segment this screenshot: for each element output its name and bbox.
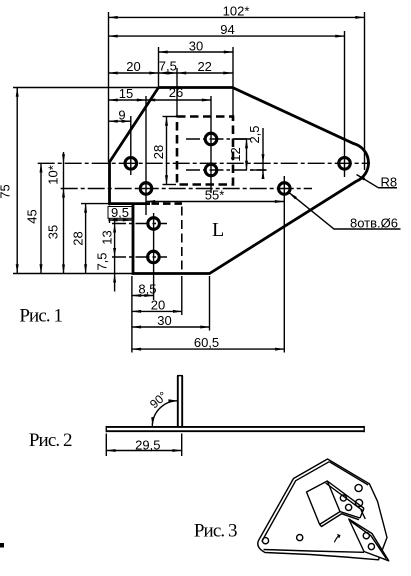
dim 102*: [109, 16, 365, 18]
hole 1: [125, 158, 137, 170]
vertical centerline flange holes: [210, 96, 212, 193]
lower blade outline: [349, 519, 389, 561]
svg-text:90°: 90°: [147, 389, 170, 412]
svg-text:60,5: 60,5: [194, 335, 219, 350]
dim 9,5: [108, 219, 132, 221]
flange 28 ext top: [163, 116, 177, 118]
dim 55*: [146, 201, 284, 203]
flange square face: [307, 481, 341, 524]
dim 7,5 top: [159, 72, 178, 74]
35 bottom arrow: [62, 265, 65, 274]
dim 2,5 line: [262, 128, 264, 178]
bar end caps: [105, 426, 107, 432]
flange 28 ext bottom: [163, 184, 177, 186]
extension line top-left corner: [158, 47, 160, 87]
bar top line: [106, 426, 364, 428]
extension line hole1 vertical: [130, 116, 132, 175]
10* arrows (outside): [62, 154, 65, 163]
centerline flange row B: [186, 169, 267, 171]
extension 9,5 left: [109, 206, 111, 224]
extension line hole2 vertical: [145, 96, 147, 215]
svg-text:28: 28: [151, 145, 166, 159]
thin construction / centerlines: [13, 12, 370, 353]
flange bent edge doubled: [327, 481, 364, 508]
hidden step edge continuation (dashed): [152, 202, 186, 205]
strip holes: [340, 495, 346, 501]
flange top cap: [177, 375, 183, 377]
svg-text:2,5: 2,5: [247, 125, 262, 143]
dim 10* / 35 shared line: [63, 152, 65, 274]
main plate outer outline: [258, 459, 387, 560]
dim 28 left: [85, 204, 87, 274]
svg-text:30: 30: [157, 313, 171, 328]
plate edge in notch: [361, 510, 365, 519]
svg-text:94: 94: [220, 22, 234, 37]
lower flange bend line (dashed): [181, 207, 183, 274]
bend line under square doubled: [320, 514, 342, 527]
leader R8: [289, 175, 401, 230]
svg-text:13: 13: [100, 230, 115, 244]
svg-text:8,5: 8,5: [138, 282, 156, 297]
vertical centerline holes 3,4: [153, 213, 155, 300]
plate outline left part: step edge, left edge, upper-left diagonal: [110, 88, 159, 204]
extension below corner x=209.5: [209, 276, 211, 331]
upper flange hidden rectangle (dashed): [177, 117, 233, 185]
blade inner line: [351, 521, 387, 558]
dim 15: [109, 99, 147, 101]
90 degree arc: [152, 401, 177, 427]
centerline hole 3: [112, 223, 167, 225]
9,5 frame box: [108, 207, 132, 219]
dim 26: [146, 99, 211, 101]
dim 20 top: [109, 72, 159, 74]
dim 60,5: [132, 348, 284, 350]
dim 29,5: [106, 434, 181, 457]
dim 9: [109, 120, 131, 122]
svg-text:45: 45: [25, 209, 40, 223]
blade holes: [363, 533, 369, 539]
arc arrowheads: [151, 399, 177, 426]
dim 75: [16, 88, 18, 274]
extension line y=87.5 to left: [13, 87, 158, 89]
svg-text:55*: 55*: [205, 188, 225, 203]
dimension lines with arrows: [17, 17, 364, 349]
svg-text:Рис. 1: Рис. 1: [19, 306, 62, 327]
dim 12: [246, 139, 248, 170]
underlines for leader labels: [378, 187, 397, 189]
rotated part mark on 3D view: [334, 535, 339, 543]
svg-text:9: 9: [118, 108, 125, 123]
svg-text:75: 75: [0, 184, 13, 198]
svg-text:15: 15: [119, 86, 133, 101]
bar bottom line: [106, 430, 364, 432]
dim 8,5: [132, 295, 154, 297]
extension line top-right corner: [232, 47, 234, 116]
extension line y=273.5 to left: [13, 273, 133, 275]
dimension value labels fig 1: [0, 3, 398, 350]
extension line right tip / 102: [364, 12, 366, 170]
dim 45: [40, 163, 42, 273]
svg-text:Рис. 2: Рис. 2: [29, 430, 72, 451]
7,5 bottom arrow (outside, from below): [113, 274, 116, 283]
extension line hole6 / 94: [344, 31, 346, 177]
vertical centerline hole 5 / 60,5 ext: [283, 176, 285, 353]
inner thickness line bottom: [264, 550, 365, 553]
svg-text:20: 20: [126, 59, 140, 74]
dim 30 bottom: [132, 326, 210, 328]
svg-text:30: 30: [189, 39, 203, 54]
hole 4: [148, 251, 160, 263]
explicit arrowheads for stacked vertical dims: [62, 154, 265, 282]
rows ext to 12-dim: [234, 138, 251, 140]
extension below bottom x=131.9: [131, 276, 133, 353]
strip tip: [360, 508, 364, 518]
svg-text:28: 28: [71, 231, 86, 245]
flange hole row A: [205, 133, 217, 145]
flange vertical lines: [177, 376, 179, 427]
svg-text:22: 22: [197, 59, 211, 74]
dim 30 top: [159, 51, 234, 53]
main horizontal centerline: [38, 162, 370, 164]
extension below bend line x=181.8: [181, 276, 183, 315]
centerline hole 4: [112, 256, 167, 258]
extension line flange left: [176, 68, 178, 116]
main plate holes: [262, 538, 268, 544]
plate outline right part: top edge, upper diagonal, R8 arc, lower diagonal, bottom edge, lower-flange left edge: [133, 88, 368, 274]
inner thickness line top-left: [262, 462, 329, 542]
svg-text:9,5: 9,5: [111, 205, 129, 220]
flange strip bottom edge doubled: [340, 512, 360, 518]
dim 20 bottom: [132, 310, 182, 312]
13 arrows: [113, 224, 116, 233]
leader 8 holes: [289, 192, 401, 229]
hole 2: [140, 183, 152, 195]
svg-text:29,5: 29,5: [135, 438, 160, 453]
flange hole row B: [205, 164, 217, 176]
svg-text:7,5: 7,5: [95, 252, 110, 270]
extension line left edge top: [108, 12, 110, 162]
svg-text:Рис. 3: Рис. 3: [194, 521, 237, 542]
svg-text:26: 26: [169, 85, 183, 100]
extension line 28-left top: [81, 203, 110, 205]
svg-text:12: 12: [228, 147, 243, 161]
svg-text:7,5: 7,5: [159, 59, 177, 74]
hole 5: [279, 183, 291, 195]
svg-text:10*: 10*: [46, 165, 61, 185]
dim 28 flange: [166, 117, 168, 185]
centerline flange row A: [186, 138, 251, 140]
svg-text:35: 35: [46, 225, 61, 239]
inner thickness line top-right: [329, 462, 368, 485]
scan artifact black box at left edge: [0, 543, 4, 548]
dim 94: [109, 35, 345, 37]
hole 6 right: [339, 158, 351, 170]
svg-text:8отв.Ø6: 8отв.Ø6: [350, 216, 398, 231]
svg-text:L: L: [212, 219, 224, 241]
svg-text:102*: 102*: [223, 3, 250, 18]
svg-text:20: 20: [151, 298, 165, 313]
2,5 arrows (outside): [262, 154, 265, 163]
centerline through holes 2 and 5: [61, 188, 312, 190]
hole 3: [148, 218, 160, 230]
dim 22 top: [177, 72, 233, 74]
dim 13 / 7,5 shared line: [114, 214, 116, 292]
